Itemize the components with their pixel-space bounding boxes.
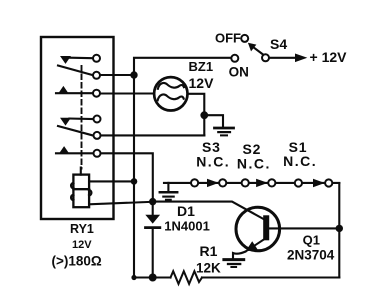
svg-text:ON: ON xyxy=(229,65,249,80)
svg-text:R1: R1 xyxy=(200,243,218,259)
svg-text:D1: D1 xyxy=(177,203,195,219)
svg-text:12V: 12V xyxy=(189,75,215,91)
svg-text:(>)180Ω: (>)180Ω xyxy=(52,253,102,268)
relay linkage dashed line xyxy=(81,66,83,169)
wire: riser to S4 ON contact xyxy=(134,58,230,75)
wire: relay A NO contact to buzzer xyxy=(101,92,153,94)
diode D1 xyxy=(146,202,160,278)
relay contact set A: wiper arm xyxy=(58,66,92,76)
svg-text:+ 12V: + 12V xyxy=(310,49,348,65)
relay RY1 box xyxy=(41,37,114,219)
ground (switch chain) xyxy=(160,183,177,200)
wire: bottom +12V rail xyxy=(134,276,171,278)
switch chain wire xyxy=(164,182,339,184)
switch S1 contacts xyxy=(295,179,302,186)
relay contact set B: wiper arm xyxy=(58,126,93,135)
transistor Q1 xyxy=(233,207,339,258)
junction dot: buzzer ground node xyxy=(200,111,208,119)
wire: main +12V vertical xyxy=(133,75,135,278)
svg-text:RY1: RY1 xyxy=(70,222,94,236)
wire: relay A wiper to +12V node xyxy=(101,74,134,76)
relay contact set B: NO contact line xyxy=(56,152,93,154)
wire: buzzer ground stub xyxy=(204,115,223,126)
wire: coil top lead xyxy=(89,180,134,182)
relay contact set B: terminal circles xyxy=(94,116,101,123)
relay contact set A: NO triangle xyxy=(59,87,68,93)
svg-text:12K: 12K xyxy=(196,260,221,275)
svg-text:OFF: OFF xyxy=(215,31,241,46)
wire: relay B NO contact down to collector node xyxy=(102,153,153,201)
switch S1 arrow xyxy=(314,180,324,187)
junction dot: base node xyxy=(336,225,343,232)
svg-text:Q1: Q1 xyxy=(303,233,320,248)
relay contact set A: terminal circles xyxy=(93,55,100,62)
ground (buzzer) xyxy=(215,128,234,135)
junction dot: diode on rail xyxy=(149,274,157,282)
wire: relay B wiper to buzzer ground node xyxy=(102,134,205,136)
wire: coil bottom lead xyxy=(89,202,153,205)
buzzer BZ1 xyxy=(154,77,187,110)
wire: buzzer right lead down to relay B wiper wire xyxy=(189,94,205,136)
switch S2 contacts xyxy=(242,179,249,186)
junction dot: collector node xyxy=(149,198,156,205)
switch S3 arrow xyxy=(208,179,218,186)
switch S4 common contact xyxy=(262,54,269,61)
relay contact set A: NC triangle xyxy=(61,57,70,64)
switch S3 contacts xyxy=(191,179,198,186)
relay contact set B: NO triangle xyxy=(60,147,69,153)
svg-text:N.C.: N.C. xyxy=(237,155,271,171)
relay coil xyxy=(71,175,91,208)
wire to +12V with arrowhead xyxy=(270,57,298,59)
relay contact set A: NC contact line xyxy=(70,57,93,60)
resistor R1 xyxy=(171,271,203,284)
svg-text:N.C.: N.C. xyxy=(283,153,317,169)
ground (emitter) xyxy=(224,260,244,267)
wire: S1 to base node down to rail xyxy=(333,183,339,278)
svg-text:2N3704: 2N3704 xyxy=(287,247,335,262)
relay contact set B: NC triangle xyxy=(61,118,70,125)
junction dot: rail corner xyxy=(131,275,136,280)
relay contact set A: NO contact line xyxy=(56,92,92,94)
svg-text:12V: 12V xyxy=(72,239,92,251)
switch S4 OFF contact xyxy=(241,35,248,42)
junction dot: +12V node at relay wiper xyxy=(130,71,137,78)
svg-text:1N4001: 1N4001 xyxy=(164,219,210,234)
switch S4 ON contact xyxy=(231,55,238,62)
svg-text:S4: S4 xyxy=(270,36,287,52)
junction dot: coil top lead xyxy=(131,178,138,185)
relay contact set B: NC contact line xyxy=(70,117,93,120)
wire: collector lead xyxy=(153,202,264,219)
svg-text:BZ1: BZ1 xyxy=(189,59,214,74)
switch S4 arm with arrowhead xyxy=(253,47,263,55)
switch S2 arrow xyxy=(257,179,267,186)
svg-text:N.C.: N.C. xyxy=(196,153,230,169)
